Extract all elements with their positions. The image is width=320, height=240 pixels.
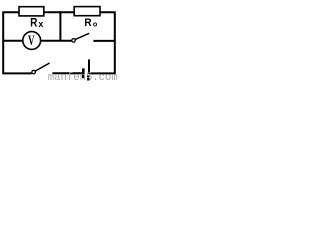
svg-text:R: R (30, 17, 37, 30)
wire: top middle segment between Rx and R0 (44, 11, 75, 13)
wire: voltmeter row left segment (3, 40, 22, 42)
switch S2 pivot (72, 39, 76, 43)
svg-text:o: o (93, 19, 98, 28)
battery plate lower dashes (87, 75, 89, 77)
resistor R0 box (74, 7, 100, 16)
wire: switch S2 to right edge (93, 40, 114, 42)
wire: middle vertical from top wire down to voltmeter row (59, 11, 61, 41)
wire: top-right segment + right edge + bottom-right segment (89, 12, 114, 73)
switch S1 pivot (32, 70, 36, 74)
wire: switch S1 to battery (52, 72, 82, 74)
wire: voltmeter to switch S2 (41, 40, 72, 42)
voltmeter V (23, 32, 41, 50)
battery long plate (positive) (88, 59, 90, 74)
battery short plate (negative) (82, 68, 85, 78)
wire: top-left segment + left edge + bottom-left segment (3, 12, 32, 73)
switch S1 lever (35, 63, 49, 71)
resistor Rx box (19, 7, 44, 16)
svg-text:manfen5.com: manfen5.com (48, 72, 118, 81)
svg-text:R: R (84, 18, 92, 29)
svg-text:V: V (28, 32, 35, 49)
svg-text:x: x (38, 19, 43, 29)
switch S2 lever (75, 33, 89, 39)
